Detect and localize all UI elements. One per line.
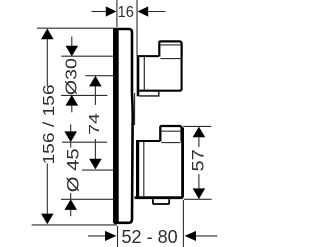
- top handle block (grip): [137, 43, 182, 96]
- bottom handle notch (underside button): [153, 199, 169, 204]
- dimension Ø45 (bottom handle grip): [61, 124, 114, 216]
- bottom handle step (small knob): [160, 126, 181, 142]
- svg-text:156 / 156: 156 / 156: [41, 84, 58, 164]
- svg-text:Ø30: Ø30: [63, 58, 80, 95]
- plate side profile (escutcheon): [113, 29, 135, 224]
- svg-text:52 - 80: 52 - 80: [122, 226, 178, 247]
- svg-text:16: 16: [118, 4, 134, 21]
- svg-text:Ø 45: Ø 45: [64, 148, 83, 192]
- dimension 74 (handle centers distance): [82, 76, 114, 170]
- dimension Ø30 (top handle grip): [61, 37, 113, 113]
- dimension 57 (right, bottom handle length): [183, 126, 212, 199]
- dimension 156 / 156 (left, plate height): [32, 28, 117, 225]
- dimension 52 - 80 (bottom, installation depth): [88, 200, 217, 247]
- dimension 16 (top): [92, 0, 166, 56]
- svg-text:57: 57: [190, 149, 208, 171]
- top handle step (small knob): [159, 41, 181, 56]
- svg-text:74: 74: [86, 113, 103, 135]
- bottom handle block (grip): [135, 128, 183, 199]
